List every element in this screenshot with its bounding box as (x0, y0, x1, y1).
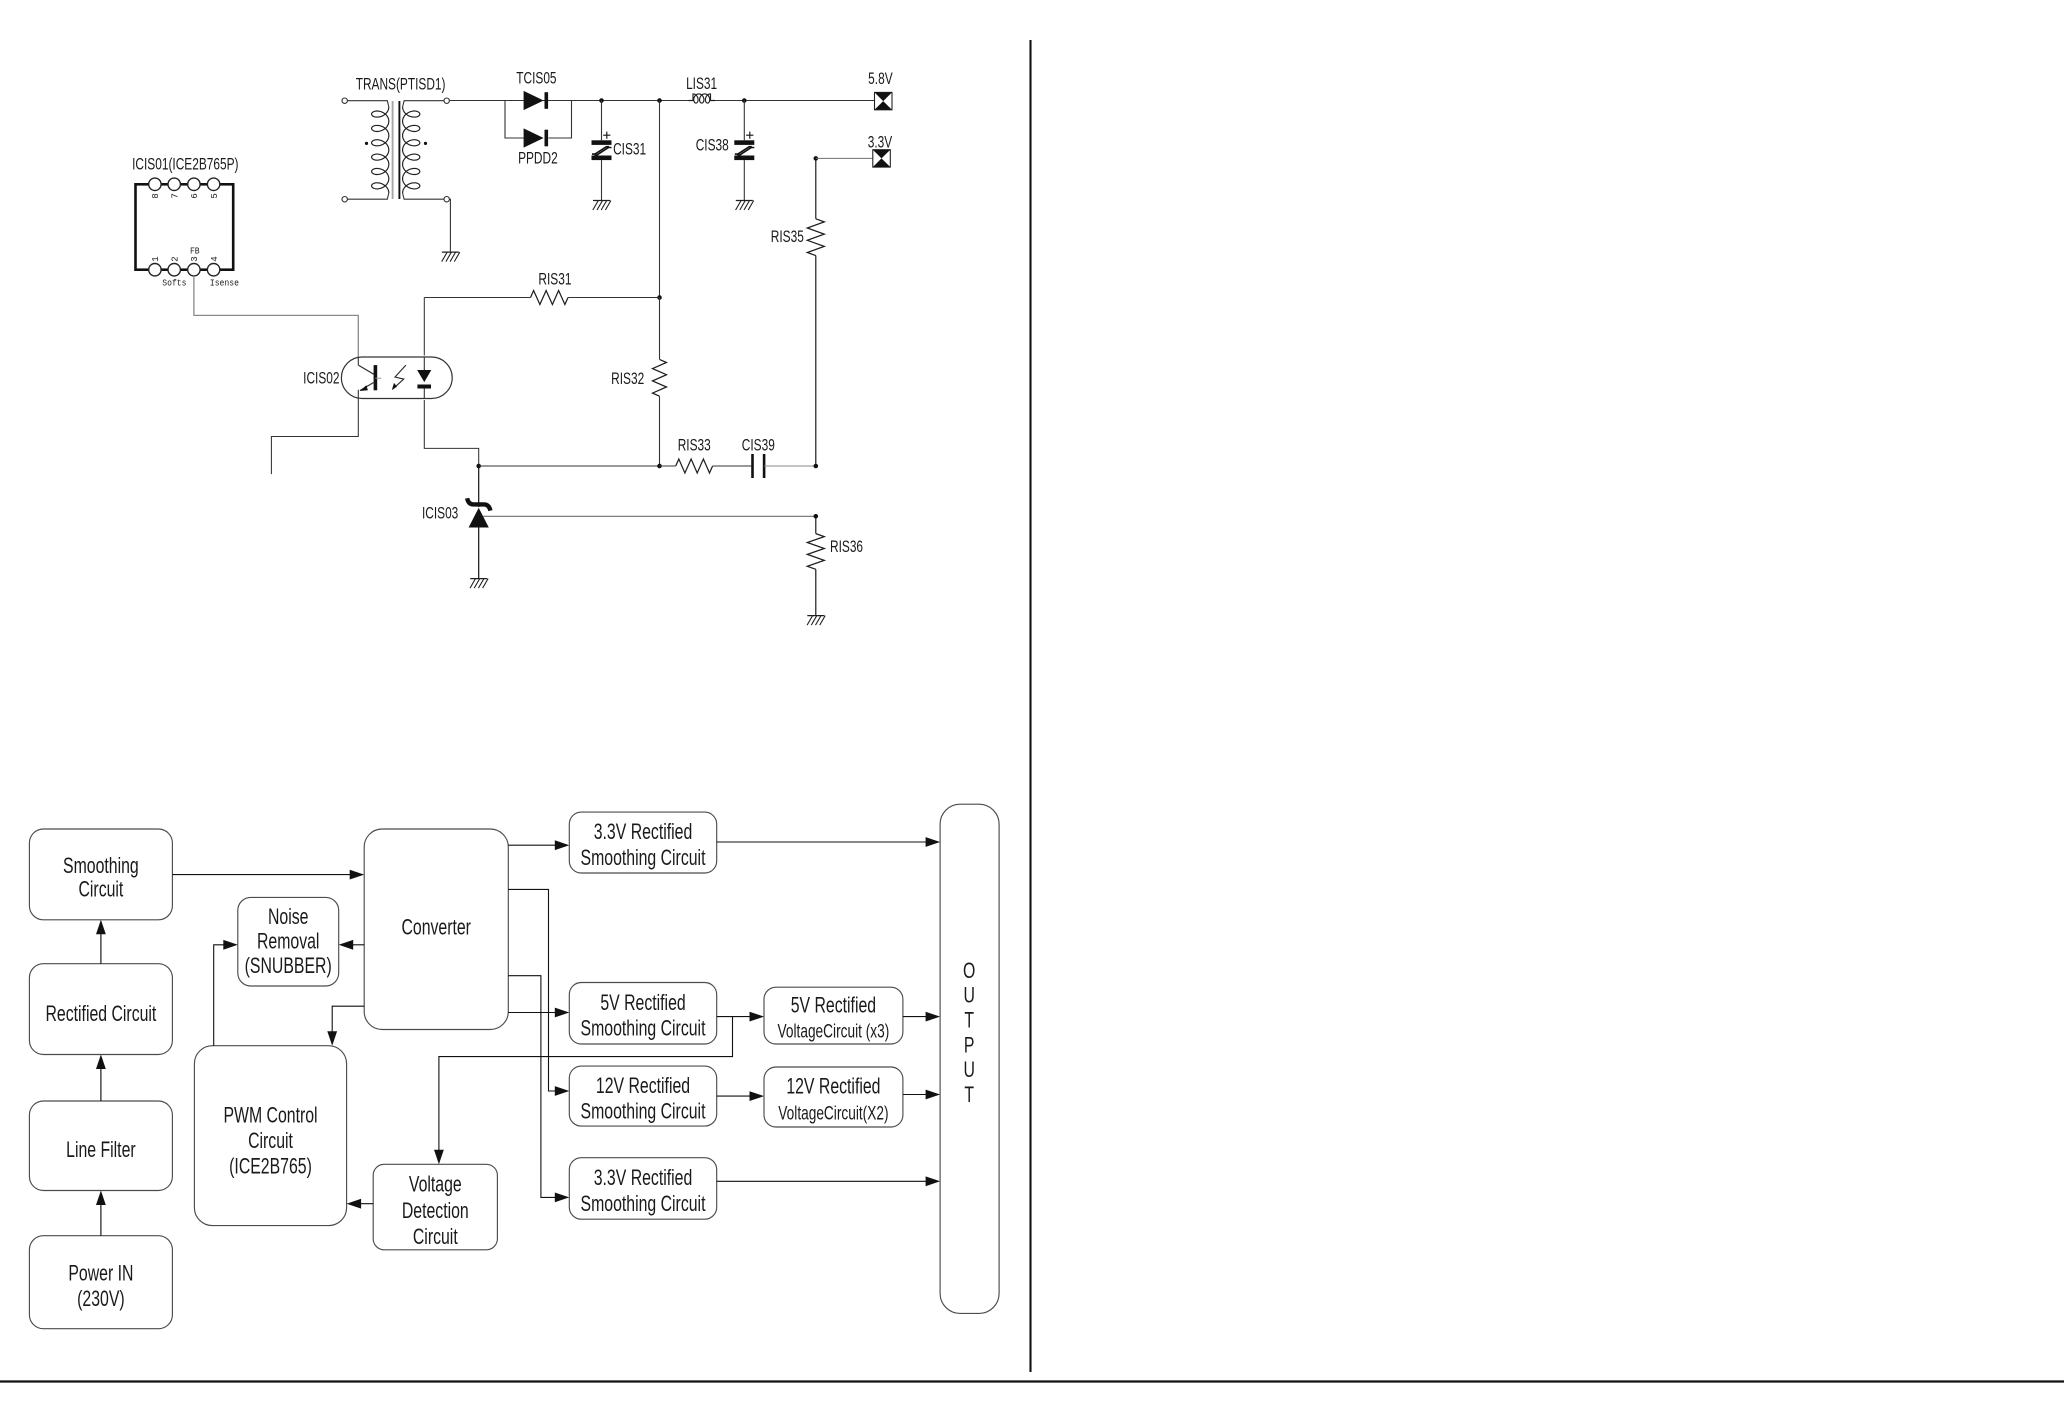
wire 3.3V bottom to OUTPUT (717, 1176, 940, 1186)
node CIS31 junction (599, 98, 604, 103)
node zener-RIS36 junction (814, 514, 819, 519)
arrow Converter to PWM (327, 1006, 364, 1045)
wire PPDD2 branch (505, 101, 572, 139)
transformer secondary winding (403, 101, 444, 200)
wire RIS36 top lead (815, 516, 817, 533)
arrow 12V VoltageCircuit to OUTPUT (903, 1090, 940, 1100)
arrow 5V smoothing to VoltageCircuit (717, 1012, 764, 1022)
ground CIS38 (736, 201, 754, 211)
svg-text:12V Rectified: 12V Rectified (786, 1075, 880, 1099)
label LIS31 (686, 75, 717, 94)
block 5V Rectified VoltageCircuit (x3) (764, 987, 903, 1044)
zener diode ICIS03 (467, 498, 490, 527)
svg-text:2: 2 (171, 256, 181, 261)
wire opto LED cathode to node (424, 400, 478, 466)
node RIS32-branch junction (657, 98, 662, 103)
block Line Filter (29, 1101, 172, 1191)
transformer terminals (342, 98, 449, 202)
svg-text:Rectified Circuit: Rectified Circuit (45, 1003, 156, 1027)
node 3.3V junction (814, 156, 819, 161)
svg-text:Noise: Noise (268, 905, 308, 929)
block Voltage Detection Circuit (373, 1164, 497, 1250)
arrow 5V VoltageCircuit to OUTPUT (903, 1012, 940, 1022)
wire RIS33 lead (660, 465, 676, 467)
svg-text:3.3V Rectified: 3.3V Rectified (594, 1167, 693, 1191)
svg-text:CIS39: CIS39 (742, 437, 775, 456)
svg-text:5: 5 (210, 193, 220, 198)
label CIS38 (696, 137, 729, 156)
label TCIS05 (516, 70, 556, 89)
svg-text:T: T (964, 1009, 974, 1033)
svg-text:Circuit: Circuit (78, 878, 123, 902)
wire RIS31 lead (424, 297, 530, 299)
arrow Rectified to Smoothing (96, 920, 106, 964)
capacitor CIS31 (592, 140, 612, 160)
svg-text:Removal: Removal (257, 930, 319, 954)
capacitor CIS39 (753, 454, 765, 478)
capacitor CIS38 (734, 140, 754, 160)
svg-text:1: 1 (151, 256, 161, 261)
ground transformer (442, 252, 460, 262)
node CIS39-RIS35 junction (814, 464, 819, 469)
svg-text:T: T (964, 1084, 974, 1108)
inductor LIS31 (689, 94, 716, 103)
svg-text:8: 8 (151, 193, 161, 198)
wire CIS31 bottom (601, 160, 603, 200)
svg-text:VoltageCircuit(X2): VoltageCircuit(X2) (778, 1102, 888, 1124)
svg-text:PWM Control: PWM Control (223, 1104, 317, 1128)
svg-text:RIS31: RIS31 (538, 271, 571, 290)
wire to 3.3V terminal (816, 157, 873, 159)
block Power IN (230V) (29, 1236, 172, 1329)
svg-text:U: U (963, 1059, 974, 1083)
wire 3.3V top to OUTPUT (717, 837, 940, 847)
svg-text:O: O (963, 960, 975, 984)
block 3.3V Rectified Smoothing Circuit top (569, 812, 716, 873)
svg-text:3: 3 (190, 256, 200, 261)
wire secondary to diodes (449, 100, 688, 102)
svg-text:VoltageCircuit (x3): VoltageCircuit (x3) (778, 1020, 890, 1042)
diode TCIS05 (524, 91, 549, 110)
plus CIS31 (603, 132, 610, 139)
svg-text:ICIS03: ICIS03 (422, 504, 458, 523)
svg-text:PPDD2: PPDD2 (518, 150, 558, 169)
svg-text:RIS32: RIS32 (611, 370, 644, 389)
wire 3.3V down to RIS35 (815, 158, 817, 218)
wire node down to zener (478, 466, 480, 507)
pin label Softs (162, 278, 186, 289)
opto light arrow (392, 365, 406, 390)
arrow VoltageDetection to PWM (347, 1199, 374, 1209)
diode PPDD2 (524, 128, 549, 147)
block OUTPUT (940, 804, 999, 1313)
wire RIS31 right lead (568, 297, 660, 299)
label RIS35 (771, 228, 804, 247)
label ICIS02 (303, 370, 339, 389)
pin label FB (190, 246, 200, 257)
arrow PWM to NoiseRemoval (214, 940, 238, 1046)
block Converter (364, 829, 508, 1030)
svg-text:Smoothing: Smoothing (63, 855, 139, 879)
svg-text:Isense: Isense (210, 278, 239, 289)
wire opto emitter left (271, 398, 358, 474)
divider line vertical (1029, 40, 1031, 1372)
wire RIS32 top lead (659, 298, 661, 360)
label RIS31 (538, 271, 571, 290)
wire CIS39 to RIS35 branch (764, 465, 816, 467)
svg-text:Smoothing Circuit: Smoothing Circuit (581, 1192, 706, 1216)
svg-text:P: P (964, 1034, 975, 1058)
svg-text:Circuit: Circuit (413, 1226, 458, 1250)
svg-text:Power IN: Power IN (68, 1262, 133, 1286)
transformer primary winding (347, 101, 388, 200)
block Rectified Circuit (29, 964, 172, 1055)
svg-text:ICIS01(ICE2B765P): ICIS01(ICE2B765P) (132, 156, 238, 175)
label CIS39 (742, 437, 775, 456)
svg-text:4: 4 (210, 256, 220, 261)
wire Converter to 3.3V bottom (508, 976, 569, 1203)
block PWM Control Circuit (ICE2B765) (194, 1046, 346, 1226)
wire opto collector up to RIS31 (423, 298, 425, 356)
resistor RIS35 (807, 219, 824, 256)
arrow Smoothing to Converter (172, 870, 364, 880)
label PPDD2 (518, 150, 558, 169)
wire after inductor (715, 100, 875, 102)
label RIS36 (830, 538, 863, 557)
svg-text:RIS36: RIS36 (830, 538, 863, 557)
svg-text:7: 7 (171, 193, 181, 198)
svg-text:5.8V: 5.8V (868, 70, 893, 89)
opto LED (417, 357, 431, 398)
wire node to RIS33 (479, 465, 660, 467)
block 3.3V Rectified Smoothing Circuit bottom (569, 1158, 716, 1220)
border line bottom (0, 1380, 2064, 1382)
arrow 12V smoothing to VoltageCircuit (717, 1091, 764, 1101)
svg-text:CIS31: CIS31 (613, 141, 646, 160)
wire CIS38 top (743, 101, 745, 141)
output terminal 5.8V (875, 92, 893, 109)
svg-text:(ICE2B765): (ICE2B765) (229, 1155, 312, 1179)
wire CIS31 top (601, 101, 603, 141)
svg-text:Smoothing Circuit: Smoothing Circuit (581, 1100, 706, 1124)
arrow Converter to 5V smoothing (508, 1008, 569, 1018)
arrow Converter to 3.3V top (508, 840, 569, 850)
svg-text:TRANS(PTISD1): TRANS(PTISD1) (356, 76, 446, 95)
ground RIS36 (807, 616, 825, 626)
svg-text:CIS38: CIS38 (696, 137, 729, 156)
plus CIS38 (746, 132, 753, 139)
svg-text:RIS33: RIS33 (678, 437, 711, 456)
svg-text:ICIS02: ICIS02 (303, 370, 339, 389)
wire RIS36 to ground (815, 569, 817, 615)
resistor RIS36 (807, 534, 824, 570)
svg-text:3.3V: 3.3V (868, 134, 893, 153)
node RIS33 junction (657, 464, 662, 469)
svg-text:12V Rectified: 12V Rectified (596, 1074, 690, 1098)
label ICIS03 (422, 504, 458, 523)
transformer phase dots (365, 142, 427, 145)
svg-text:TCIS05: TCIS05 (516, 70, 556, 89)
resistor RIS33 (676, 459, 713, 473)
svg-text:3.3V Rectified: 3.3V Rectified (594, 821, 693, 845)
opto phototransistor (358, 357, 381, 398)
svg-text:Line Filter: Line Filter (66, 1139, 136, 1163)
ground ICIS03 (470, 579, 488, 589)
wire zener to ground (478, 528, 480, 579)
block 12V Rectified Smoothing Circuit (569, 1066, 716, 1126)
output terminal 3.3V (873, 150, 891, 167)
wire RIS35 to RIS33 node (815, 256, 817, 466)
node opto-zener junction (476, 464, 481, 469)
svg-text:Softs: Softs (162, 278, 186, 289)
label ICIS01(ICE2B765P) (132, 156, 238, 175)
IC ICIS01 pin numbers (151, 193, 220, 262)
svg-text:6: 6 (190, 193, 200, 198)
block Smoothing Circuit (29, 829, 172, 920)
arrow LineFilter to Rectified (96, 1055, 106, 1102)
block Noise Removal (SNUBBER) (238, 897, 339, 986)
resistor RIS31 (531, 291, 569, 305)
svg-text:(SNUBBER): (SNUBBER) (245, 955, 332, 979)
svg-text:5V Rectified: 5V Rectified (791, 994, 876, 1018)
svg-text:FB: FB (190, 246, 200, 257)
label TRANS(PTISD1) (356, 76, 446, 95)
arrow Converter to NoiseRemoval (339, 940, 365, 950)
label 3.3V (868, 134, 893, 153)
pin label Isense (210, 278, 239, 289)
label CIS31 (613, 141, 646, 160)
block 12V Rectified VoltageCircuit(X2) (764, 1067, 903, 1127)
block 5V Rectified Smoothing Circuit (569, 983, 716, 1045)
wire bus down to RIS31 node (659, 101, 661, 298)
label RIS33 (678, 437, 711, 456)
label RIS32 (611, 370, 644, 389)
svg-text:(230V): (230V) (77, 1288, 125, 1312)
optocoupler ICIS02 body (341, 357, 452, 399)
node LIS31-CIS38 junction (742, 98, 747, 103)
svg-text:Detection: Detection (402, 1199, 469, 1223)
wire Converter to 12V smoothing (508, 889, 569, 1096)
svg-text:Smoothing Circuit: Smoothing Circuit (581, 1017, 706, 1041)
svg-text:Voltage: Voltage (409, 1173, 462, 1197)
resistor RIS32 (653, 359, 667, 396)
node RIS31 junction (657, 295, 662, 300)
svg-text:U: U (963, 984, 974, 1008)
arrow PowerIN to LineFilter (96, 1191, 106, 1236)
wire FB to opto (194, 276, 358, 357)
svg-text:Circuit: Circuit (248, 1130, 293, 1154)
transformer core (393, 101, 400, 199)
wire RIS32 bottom lead (659, 396, 661, 466)
IC ICIS01 pins (149, 178, 220, 276)
svg-text:RIS35: RIS35 (771, 228, 804, 247)
svg-text:Smoothing Circuit: Smoothing Circuit (581, 847, 706, 871)
IC U-ICIS01 (ICE2B765P) body (136, 184, 234, 269)
ground CIS31 (593, 201, 611, 211)
wire RIS33 to CIS39 (713, 465, 753, 467)
wire transformer to ground (449, 199, 450, 252)
svg-text:LIS31: LIS31 (686, 75, 717, 94)
svg-text:5V Rectified: 5V Rectified (600, 992, 685, 1016)
svg-text:Converter: Converter (401, 916, 471, 940)
wire CIS38 bottom (743, 160, 745, 200)
label 5.8V (868, 70, 893, 89)
wire 5V sense to Voltage Detection (434, 1017, 733, 1165)
wire zener to RIS36 branch (483, 515, 816, 517)
